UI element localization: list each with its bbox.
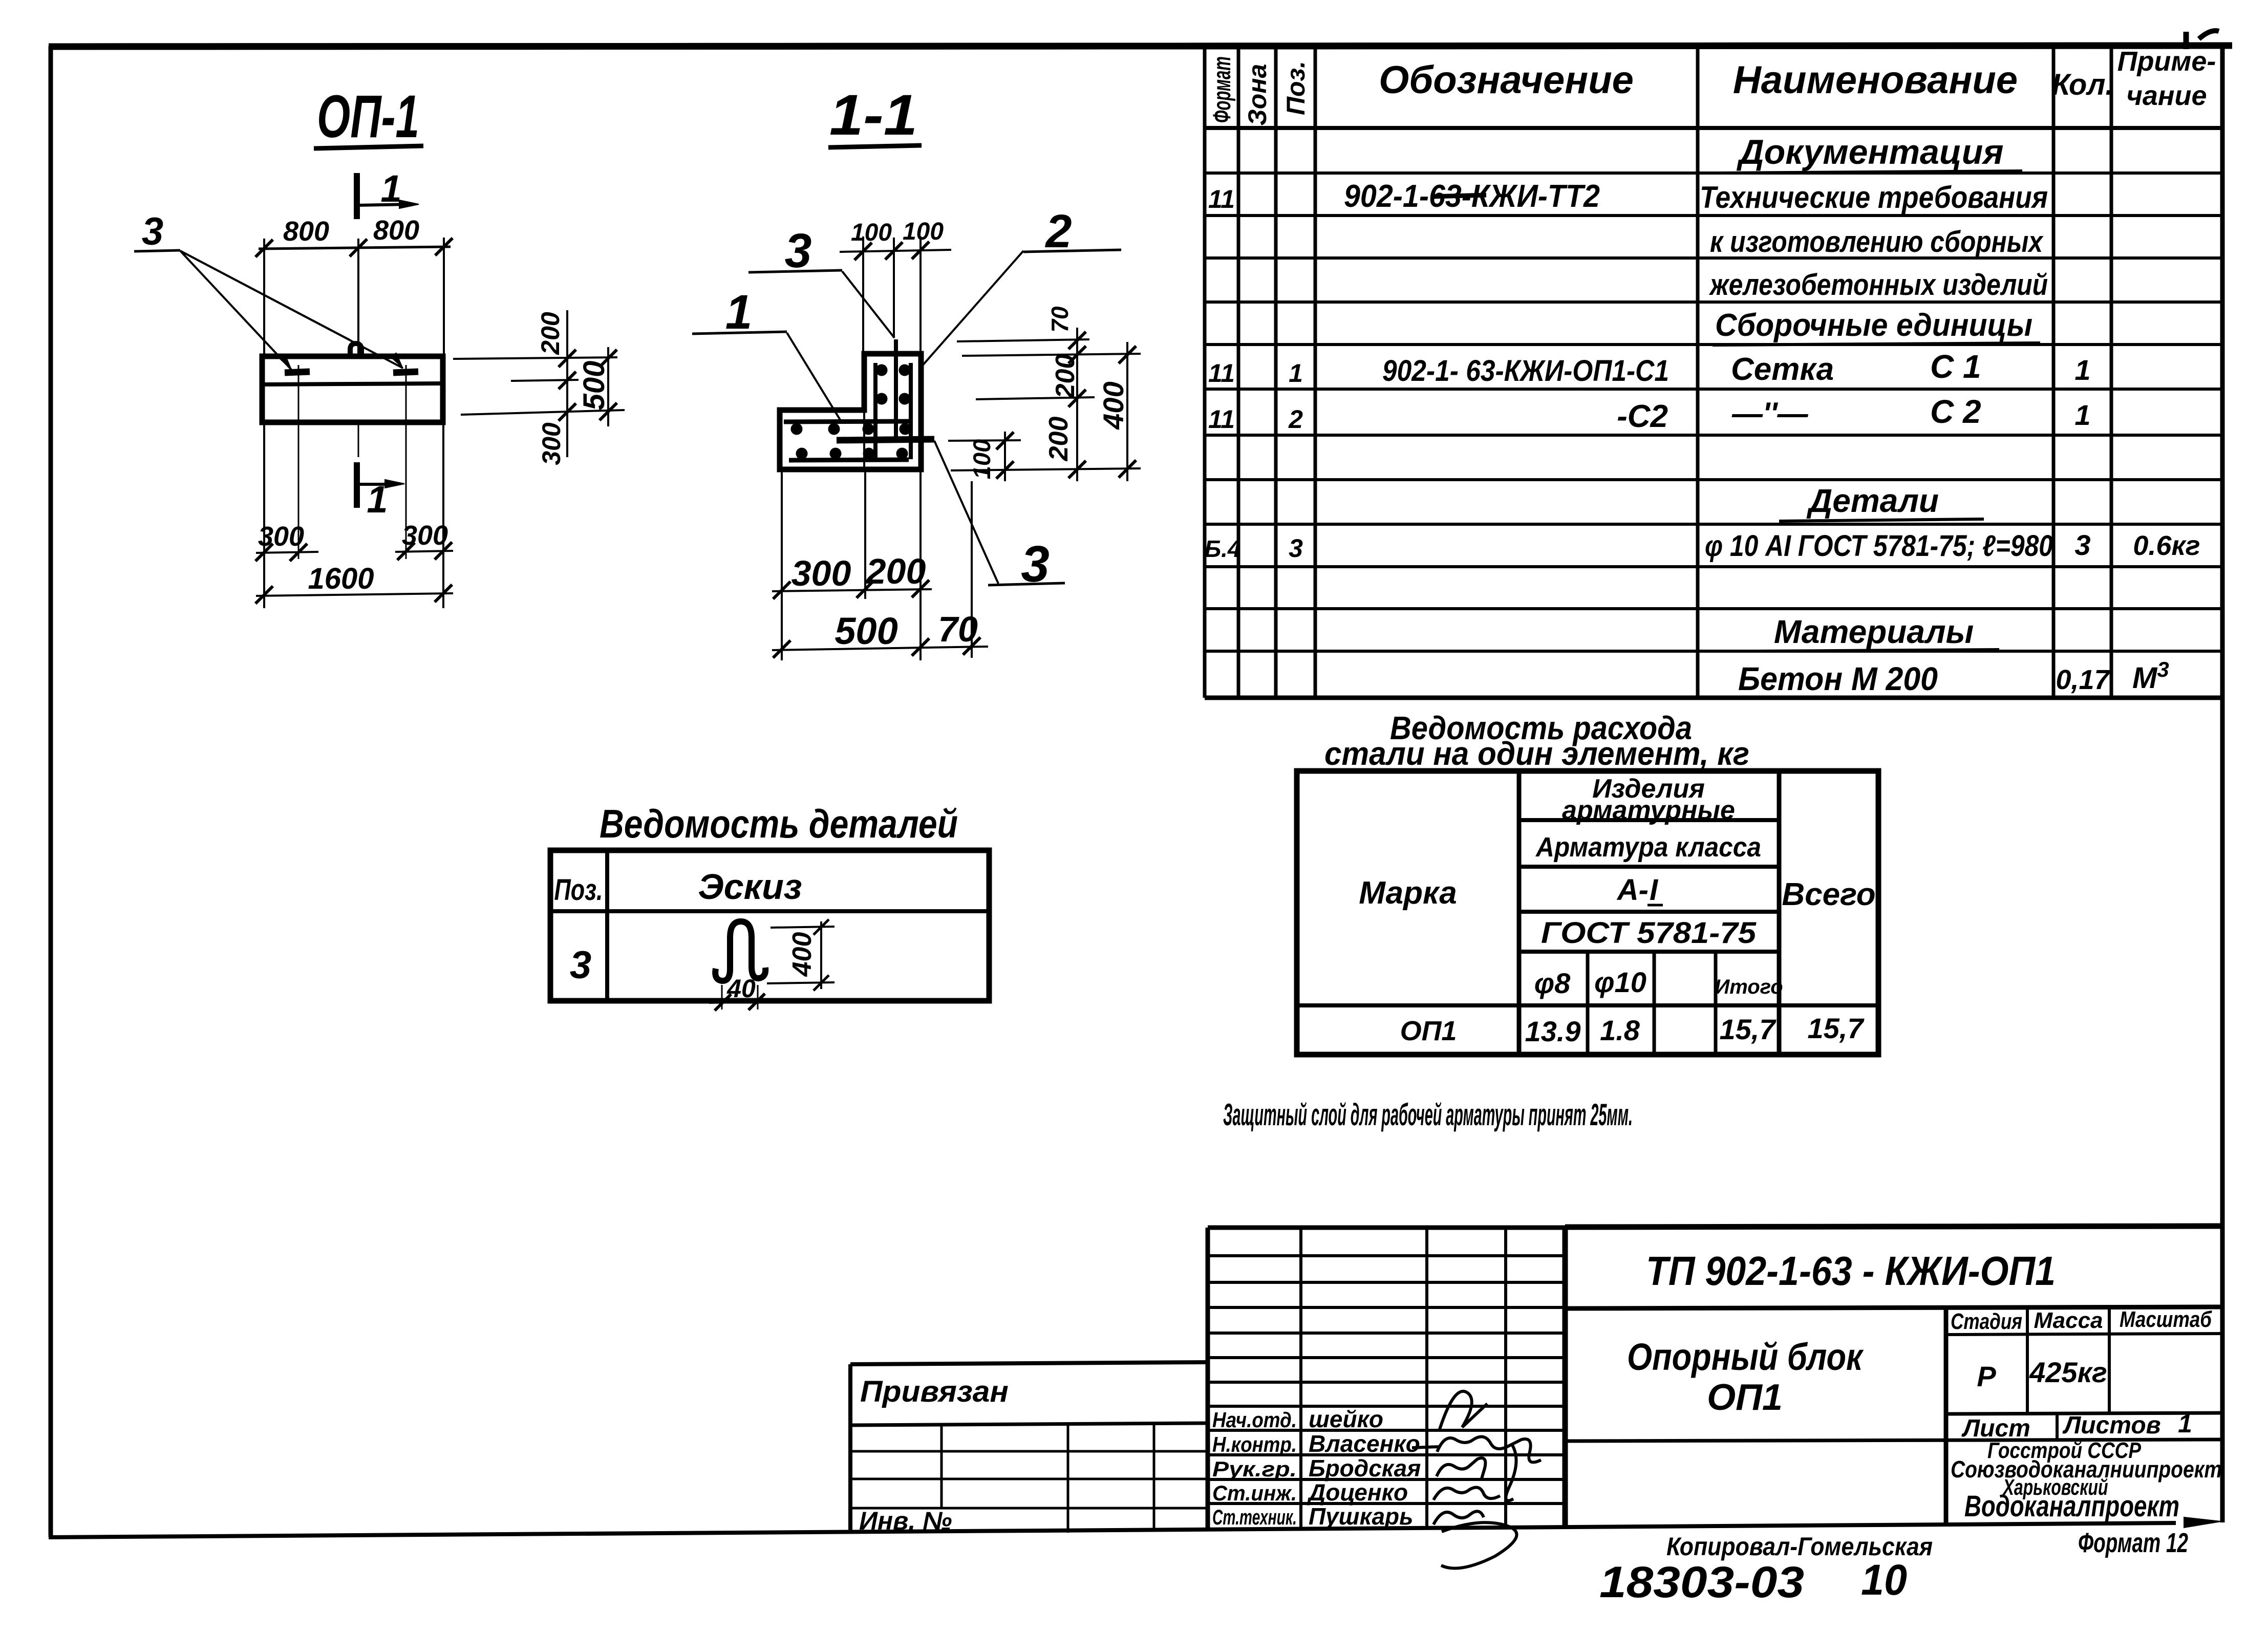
svg-text:Листов: Листов	[2062, 1412, 2160, 1439]
svg-text:500: 500	[577, 361, 611, 411]
svg-text:15,7: 15,7	[1720, 1013, 1777, 1045]
svg-text:1.8: 1.8	[1600, 1014, 1640, 1046]
svg-text:3: 3	[142, 210, 163, 253]
svg-text:Пушкарь: Пушкарь	[1309, 1503, 1413, 1530]
svg-text:300: 300	[258, 521, 304, 552]
svg-text:Технические требования: Технические требования	[1700, 180, 2048, 214]
svg-text:Масса: Масса	[2034, 1308, 2103, 1333]
svg-text:Привязан: Привязан	[860, 1375, 1009, 1408]
svg-text:18303-03: 18303-03	[1599, 1558, 1804, 1607]
svg-text:Обозначение: Обозначение	[1379, 58, 1634, 102]
svg-text:800: 800	[373, 215, 419, 246]
svg-text:15,7: 15,7	[1808, 1012, 1865, 1044]
svg-text:902-1- 63-КЖИ-ОП1-С1: 902-1- 63-КЖИ-ОП1-С1	[1382, 354, 1669, 388]
svg-text:1: 1	[1289, 359, 1303, 388]
svg-text:Ст.техник.: Ст.техник.	[1212, 1505, 1297, 1529]
svg-text:—ʹʹ—: —ʹʹ—	[1731, 396, 1809, 431]
svg-text:Инв. №: Инв. №	[859, 1507, 952, 1535]
svg-text:1: 1	[2178, 1409, 2192, 1438]
svg-text:400: 400	[787, 932, 817, 977]
svg-text:200: 200	[1044, 417, 1074, 462]
svg-text:3: 3	[1021, 535, 1050, 593]
svg-text:100: 100	[851, 219, 892, 246]
svg-text:Эскиз: Эскиз	[698, 867, 802, 907]
svg-text:Сборочные единицы: Сборочные единицы	[1715, 308, 2032, 343]
svg-text:стали на один элемент, кг: стали на один элемент, кг	[1324, 735, 1749, 772]
svg-text:11: 11	[1208, 405, 1235, 434]
svg-text:Бродская: Бродская	[1309, 1455, 1421, 1481]
svg-text:1: 1	[725, 285, 753, 339]
svg-text:к изготовлению сборных: к изготовлению сборных	[1710, 225, 2044, 259]
svg-text:-С2: -С2	[1617, 399, 1668, 434]
svg-text:1: 1	[2074, 354, 2090, 386]
svg-text:Сетка: Сетка	[1731, 352, 1834, 387]
svg-text:Защитный слой для рабочей арма: Защитный слой для рабочей арматуры приня…	[1223, 1098, 1633, 1132]
svg-text:С 1: С 1	[1930, 348, 1981, 385]
svg-text:Итого: Итого	[1715, 976, 1783, 998]
svg-text:1-1: 1-1	[829, 83, 917, 147]
svg-text:Приме-: Приме-	[2117, 46, 2216, 77]
svg-text:Нач.отд.: Нач.отд.	[1212, 1408, 1297, 1432]
svg-text:11: 11	[1208, 185, 1235, 213]
svg-text:I: I	[1650, 873, 1659, 907]
svg-text:Стадия: Стадия	[1951, 1309, 2022, 1334]
svg-text:ТП 902-1-63 - КЖИ-ОП1: ТП 902-1-63 - КЖИ-ОП1	[1646, 1248, 2056, 1294]
svg-text:200: 200	[865, 551, 926, 591]
svg-text:40: 40	[726, 974, 756, 1003]
svg-text:Документация: Документация	[1737, 133, 2004, 171]
svg-text:Доценко: Доценко	[1307, 1479, 1408, 1506]
svg-text:1: 1	[380, 167, 401, 210]
svg-text:ГОСТ 5781-75: ГОСТ 5781-75	[1541, 916, 1757, 950]
svg-text:С 2: С 2	[1930, 393, 1981, 430]
svg-text:3: 3	[570, 943, 591, 987]
svg-text:Водоканалпроект: Водоканалпроект	[1964, 1490, 2179, 1523]
svg-text:Поз.: Поз.	[1281, 61, 1310, 115]
svg-text:А-: А-	[1616, 873, 1649, 907]
svg-text:Масштаб: Масштаб	[2120, 1307, 2212, 1332]
svg-text:Ст.инж.: Ст.инж.	[1212, 1481, 1297, 1505]
svg-text:300: 300	[402, 520, 448, 551]
svg-text:Ведомость деталей: Ведомость деталей	[600, 801, 958, 846]
svg-text:70: 70	[938, 609, 978, 649]
svg-text:13.9: 13.9	[1525, 1015, 1581, 1047]
svg-text:φ8: φ8	[1534, 967, 1571, 999]
svg-text:Рук.гр.: Рук.гр.	[1212, 1457, 1297, 1481]
svg-text:200: 200	[1051, 354, 1080, 399]
svg-text:400: 400	[1097, 381, 1129, 430]
svg-text:Всего: Всего	[1782, 877, 1875, 912]
svg-text:ОП1: ОП1	[1400, 1016, 1457, 1046]
svg-text:Марка: Марка	[1359, 875, 1457, 911]
svg-text:Зона: Зона	[1243, 64, 1272, 126]
svg-text:100: 100	[903, 218, 944, 245]
svg-text:2: 2	[1288, 405, 1303, 434]
svg-text:3: 3	[1289, 534, 1303, 563]
svg-text:Власенко: Власенко	[1309, 1430, 1420, 1457]
svg-text:шейко: шейко	[1309, 1406, 1383, 1432]
svg-text:железобетонных изделий: железобетонных изделий	[1708, 268, 2048, 302]
svg-text:800: 800	[283, 216, 329, 247]
svg-text:Н.контр.: Н.контр.	[1212, 1432, 1297, 1456]
svg-text:0.6кг: 0.6кг	[2133, 530, 2200, 561]
svg-text:Формат 12: Формат 12	[2078, 1528, 2188, 1558]
svg-text:арматурные: арматурные	[1562, 796, 1735, 825]
svg-text:3: 3	[2074, 529, 2090, 561]
svg-text:1: 1	[367, 478, 388, 521]
svg-text:0,17: 0,17	[2056, 664, 2111, 695]
svg-text:Кол.: Кол.	[2051, 68, 2113, 101]
svg-text:Материалы: Материалы	[1774, 613, 1974, 650]
svg-text:1600: 1600	[308, 562, 374, 595]
svg-text:φ 10 АI ГОСТ 5781-75; ℓ=980: φ 10 АI ГОСТ 5781-75; ℓ=980	[1705, 529, 2053, 563]
svg-text:Формат: Формат	[1209, 56, 1236, 123]
svg-text:100: 100	[968, 439, 995, 479]
svg-text:70: 70	[1046, 306, 1073, 333]
svg-text:425кг: 425кг	[2029, 1356, 2107, 1388]
svg-text:10: 10	[1861, 1556, 1907, 1604]
svg-text:Опорный блок: Опорный блок	[1627, 1336, 1864, 1378]
svg-text:300: 300	[791, 553, 851, 593]
svg-text:Бетон М 200: Бетон М 200	[1738, 660, 1938, 697]
svg-text:300: 300	[537, 422, 566, 465]
svg-text:1: 1	[2074, 399, 2090, 431]
svg-text:Р: Р	[1977, 1360, 1996, 1392]
svg-text:ОП1: ОП1	[1707, 1377, 1783, 1418]
svg-text:чание: чание	[2126, 80, 2207, 111]
svg-text:Поз.: Поз.	[554, 873, 603, 907]
svg-text:Б.4: Б.4	[1205, 535, 1241, 562]
svg-text:11: 11	[1208, 359, 1235, 388]
svg-text:Детали: Детали	[1806, 482, 1939, 519]
svg-text:φ10: φ10	[1594, 966, 1646, 998]
svg-text:500: 500	[835, 610, 897, 652]
svg-text:Арматура класса: Арматура класса	[1535, 832, 1761, 863]
svg-text:Наименование: Наименование	[1733, 58, 2018, 102]
svg-text:200: 200	[536, 312, 565, 355]
svg-text:ОП-1: ОП-1	[317, 83, 419, 151]
